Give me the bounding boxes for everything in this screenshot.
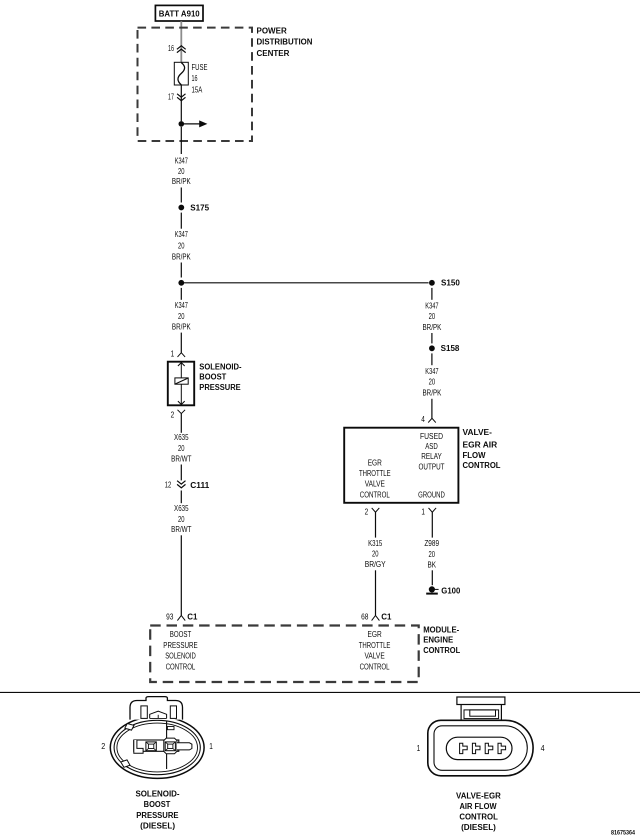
connector face view: solenoid-boost pressure bbox=[110, 697, 204, 779]
wire: K315 run to module pin 68 bbox=[375, 570, 377, 615]
power distribution center enclosure (dashed) bbox=[138, 28, 253, 141]
connector half at valve pin 4 bbox=[428, 418, 436, 422]
terminal 1 housing chamfer bbox=[164, 738, 177, 754]
wire: label to valve pin 4 bbox=[431, 399, 433, 418]
svg-text:12: 12 bbox=[165, 481, 172, 490]
svg-text:15A: 15A bbox=[192, 86, 203, 95]
inner oval ring bbox=[114, 720, 200, 774]
svg-text:SOLENOID: SOLENOID bbox=[165, 652, 196, 661]
tab key house bbox=[150, 711, 167, 718]
svg-text:2: 2 bbox=[171, 411, 175, 420]
module internal labels (right: EGR throttle valve control) bbox=[359, 630, 391, 671]
wire: S150 down bbox=[431, 288, 433, 300]
svg-text:S175: S175 bbox=[190, 203, 209, 212]
ground G100 bbox=[426, 586, 461, 595]
wire label X635 20 BR/WT (block 2) bbox=[171, 504, 191, 534]
svg-text:(DIESEL): (DIESEL) bbox=[140, 822, 175, 831]
label: SOLENOID- BOOST PRESSURE bbox=[199, 362, 242, 392]
svg-text:(DIESEL): (DIESEL) bbox=[461, 823, 496, 832]
svg-text:1: 1 bbox=[209, 742, 213, 751]
svg-text:POWER: POWER bbox=[257, 27, 287, 36]
junction dot in PDC bbox=[179, 121, 185, 127]
battery feed box BATT A910 bbox=[155, 5, 203, 21]
connector half at valve pin 1 bbox=[429, 508, 437, 512]
fuse element (wavy) bbox=[178, 63, 185, 85]
svg-text:K315: K315 bbox=[368, 539, 383, 548]
connector chevrons pin 17 bbox=[177, 94, 185, 101]
svg-text:THROTTLE: THROTTLE bbox=[359, 641, 391, 650]
splice S150 bbox=[429, 279, 460, 288]
svg-text:93: 93 bbox=[166, 612, 174, 621]
svg-text:2: 2 bbox=[365, 508, 369, 517]
terminal pill bbox=[446, 737, 512, 759]
svg-text:BR/PK: BR/PK bbox=[172, 322, 191, 331]
wire: fuse to PDC junction bbox=[180, 85, 182, 121]
svg-text:20: 20 bbox=[428, 550, 435, 559]
svg-text:DISTRIBUTION: DISTRIBUTION bbox=[257, 38, 313, 47]
terminal cavity 1 (square with key) bbox=[165, 742, 175, 751]
svg-text:4: 4 bbox=[541, 744, 545, 753]
svg-text:BOOST: BOOST bbox=[199, 373, 226, 382]
svg-text:BATT A910: BATT A910 bbox=[159, 9, 201, 18]
svg-text:CENTER: CENTER bbox=[257, 49, 290, 58]
svg-text:PRESSURE: PRESSURE bbox=[136, 811, 179, 820]
svg-text:C1: C1 bbox=[381, 613, 392, 622]
wire: S175 down bbox=[180, 213, 182, 229]
svg-text:C111: C111 bbox=[190, 481, 210, 490]
connector face view: valve-EGR air flow control bbox=[428, 697, 533, 776]
wire label K347 20 BR/PK (block 1) bbox=[172, 157, 191, 187]
svg-text:20: 20 bbox=[429, 378, 436, 387]
module internal labels (left: boost pressure solenoid control) bbox=[163, 630, 197, 671]
wire: S158 down bbox=[431, 353, 433, 365]
svg-text:20: 20 bbox=[429, 312, 436, 321]
wire: label to S158 bbox=[431, 333, 433, 343]
svg-text:CONTROL: CONTROL bbox=[423, 646, 460, 655]
svg-text:BOOST: BOOST bbox=[144, 800, 171, 809]
wire: label to junction bbox=[180, 263, 182, 278]
wire label K347 20 BR/PK (block 5) bbox=[423, 367, 442, 398]
svg-text:CONTROL: CONTROL bbox=[463, 461, 501, 470]
terminal 2 bbox=[472, 743, 480, 753]
wire: C111 down bbox=[180, 491, 182, 504]
svg-text:1: 1 bbox=[421, 508, 425, 517]
svg-text:16: 16 bbox=[168, 44, 174, 53]
svg-text:SOLENOID-: SOLENOID- bbox=[199, 362, 242, 371]
wire label K347 20 BR/PK (block 4) bbox=[423, 301, 442, 332]
svg-text:PRESSURE: PRESSURE bbox=[163, 641, 197, 650]
connector chevrons pin 16 bbox=[177, 46, 186, 53]
terminal 1 bbox=[460, 743, 468, 753]
tab body bbox=[461, 700, 501, 720]
outer oval bbox=[110, 717, 204, 779]
wire: junction down bbox=[180, 288, 182, 300]
svg-text:X635: X635 bbox=[174, 504, 189, 513]
svg-text:1: 1 bbox=[417, 744, 421, 753]
svg-text:K347: K347 bbox=[425, 301, 439, 310]
svg-text:81675364: 81675364 bbox=[611, 830, 635, 837]
svg-text:ENGINE: ENGINE bbox=[423, 636, 454, 645]
svg-text:EGR AIR: EGR AIR bbox=[463, 440, 498, 449]
svg-text:VALVE-EGR: VALVE-EGR bbox=[456, 791, 501, 800]
terminal 4 bbox=[498, 743, 506, 753]
svg-text:K347: K347 bbox=[425, 367, 439, 376]
connector half at solenoid pin 1 bbox=[178, 353, 186, 357]
svg-text:17: 17 bbox=[168, 92, 174, 101]
svg-text:EGR: EGR bbox=[368, 630, 382, 639]
third ring bbox=[117, 723, 198, 772]
wire: PDC junction down to label bbox=[180, 127, 182, 154]
feed arrow to other circuits bbox=[184, 123, 200, 125]
svg-text:BR/GY: BR/GY bbox=[365, 560, 387, 569]
svg-text:MODULE-: MODULE- bbox=[423, 625, 459, 634]
wire: long run to module pin 93 bbox=[180, 535, 182, 615]
svg-text:S150: S150 bbox=[441, 279, 460, 288]
svg-text:20: 20 bbox=[178, 444, 185, 453]
svg-text:Z989: Z989 bbox=[424, 539, 439, 548]
svg-text:RELAY: RELAY bbox=[421, 452, 442, 461]
index notch lower-left bbox=[121, 760, 130, 767]
svg-text:THROTTLE: THROTTLE bbox=[359, 469, 391, 478]
svg-text:S158: S158 bbox=[441, 344, 460, 353]
connector half at valve pin 2 bbox=[372, 508, 380, 512]
svg-text:20: 20 bbox=[178, 167, 185, 176]
svg-text:GROUND: GROUND bbox=[418, 491, 445, 500]
svg-text:CONTROL: CONTROL bbox=[360, 662, 390, 671]
wire: pin 2 down bbox=[180, 414, 182, 433]
svg-text:K347: K347 bbox=[175, 157, 189, 166]
terminal bar left bracket bbox=[134, 740, 143, 753]
svg-text:FUSE: FUSE bbox=[192, 63, 208, 72]
svg-text:68: 68 bbox=[361, 612, 369, 621]
tab inner small rect bbox=[470, 710, 496, 716]
fuse F16 body bbox=[174, 62, 188, 85]
svg-text:BR/PK: BR/PK bbox=[172, 252, 191, 261]
svg-text:X635: X635 bbox=[174, 433, 189, 442]
wire: BATT A910 to fuse (PDC internal, gray) bbox=[180, 21, 182, 62]
svg-text:SOLENOID-: SOLENOID- bbox=[135, 789, 179, 798]
svg-text:BR/PK: BR/PK bbox=[423, 389, 442, 398]
divider notch bbox=[167, 727, 174, 730]
wire label K347 20 BR/PK (block 2) bbox=[172, 230, 191, 261]
outer shell bbox=[428, 720, 533, 776]
wire: valve pin 1 down bbox=[431, 512, 433, 537]
separator line bbox=[0, 691, 640, 693]
svg-text:PRESSURE: PRESSURE bbox=[199, 383, 241, 392]
wire: label to C111 bbox=[180, 465, 182, 481]
svg-text:EGR: EGR bbox=[368, 459, 382, 468]
svg-text:BR/WT: BR/WT bbox=[171, 525, 191, 534]
wire: valve pin 2 down bbox=[375, 512, 377, 537]
valve internal labels bbox=[359, 432, 445, 500]
module - engine control enclosure (dashed) bbox=[150, 626, 419, 683]
svg-text:AIR FLOW: AIR FLOW bbox=[459, 802, 497, 811]
terminal bar bbox=[134, 740, 179, 751]
connector half at solenoid pin 2 bbox=[178, 410, 186, 414]
svg-text:CONTROL: CONTROL bbox=[360, 491, 390, 500]
svg-text:VALVE-: VALVE- bbox=[463, 428, 493, 437]
tab left latch wall bbox=[141, 706, 147, 719]
connector half at module pin 93 C1 bbox=[177, 616, 185, 621]
svg-text:FLOW: FLOW bbox=[463, 451, 486, 460]
solenoid - boost pressure body bbox=[168, 362, 194, 406]
svg-text:C1: C1 bbox=[187, 613, 198, 622]
junction dot (tap to S150) bbox=[178, 280, 184, 286]
svg-text:FUSED: FUSED bbox=[420, 432, 443, 441]
svg-text:CONTROL: CONTROL bbox=[459, 813, 498, 822]
svg-text:BK: BK bbox=[427, 560, 436, 569]
wire label X635 20 BR/WT (block 1) bbox=[171, 433, 191, 463]
svg-text:K347: K347 bbox=[175, 230, 189, 239]
svg-text:2: 2 bbox=[101, 742, 105, 751]
wire: horizontal run to S150 bbox=[181, 282, 428, 284]
svg-text:BR/WT: BR/WT bbox=[171, 454, 191, 463]
svg-text:G100: G100 bbox=[441, 586, 461, 595]
svg-text:VALVE: VALVE bbox=[365, 652, 385, 661]
tab right latch wall bbox=[170, 706, 176, 719]
connector half at module pin 68 C1 bbox=[372, 616, 380, 621]
tab cap bbox=[457, 697, 505, 705]
top tab body bbox=[130, 697, 183, 720]
svg-text:CONTROL: CONTROL bbox=[166, 662, 196, 671]
wire: label to solenoid pin 1 bbox=[180, 333, 182, 353]
splice S175 bbox=[178, 203, 209, 212]
svg-text:ASD: ASD bbox=[425, 442, 438, 451]
svg-text:4: 4 bbox=[421, 415, 425, 424]
in-line connector C111 chevrons bbox=[177, 481, 185, 488]
svg-text:BOOST: BOOST bbox=[170, 630, 192, 639]
svg-text:BR/PK: BR/PK bbox=[423, 323, 442, 332]
wire label K347 20 BR/PK (block 3) bbox=[172, 301, 191, 331]
label: VALVE-EGR AIR FLOW CONTROL (DIESEL) bbox=[456, 791, 501, 832]
svg-text:20: 20 bbox=[372, 549, 379, 558]
wire label Z989 20 BK bbox=[424, 539, 439, 569]
fuse value labels FUSE 16 15A bbox=[192, 63, 208, 95]
terminal 3 bbox=[485, 743, 493, 753]
wire label K315 20 BR/GY bbox=[365, 539, 387, 569]
svg-text:20: 20 bbox=[178, 515, 185, 524]
svg-text:OUTPUT: OUTPUT bbox=[419, 462, 445, 471]
svg-text:1: 1 bbox=[171, 349, 175, 358]
svg-text:BR/PK: BR/PK bbox=[172, 177, 191, 186]
valve-EGR air flow control body bbox=[344, 428, 458, 503]
splice S158 bbox=[429, 344, 460, 353]
index notch upper-left bbox=[125, 724, 134, 731]
svg-text:20: 20 bbox=[178, 242, 185, 251]
label: POWER DISTRIBUTION CENTER bbox=[257, 27, 313, 58]
svg-text:16: 16 bbox=[192, 74, 198, 83]
wire: label to S175 bbox=[180, 188, 182, 203]
terminal cavity 2 (square with key) bbox=[146, 742, 156, 751]
svg-text:K347: K347 bbox=[175, 301, 189, 310]
inner shell bbox=[434, 726, 527, 771]
svg-text:VALVE: VALVE bbox=[365, 480, 385, 489]
svg-text:20: 20 bbox=[178, 312, 185, 321]
wire: Z989 to ground bbox=[431, 570, 433, 585]
cavity divider line bbox=[166, 721, 168, 740]
tab inner rect bbox=[464, 710, 499, 719]
label: MODULE- ENGINE CONTROL bbox=[423, 625, 460, 655]
label: VALVE- EGR AIR FLOW CONTROL bbox=[463, 428, 501, 470]
terminal bar right stub bbox=[177, 743, 192, 750]
label: SOLENOID- BOOST PRESSURE (DIESEL) bbox=[135, 789, 179, 830]
